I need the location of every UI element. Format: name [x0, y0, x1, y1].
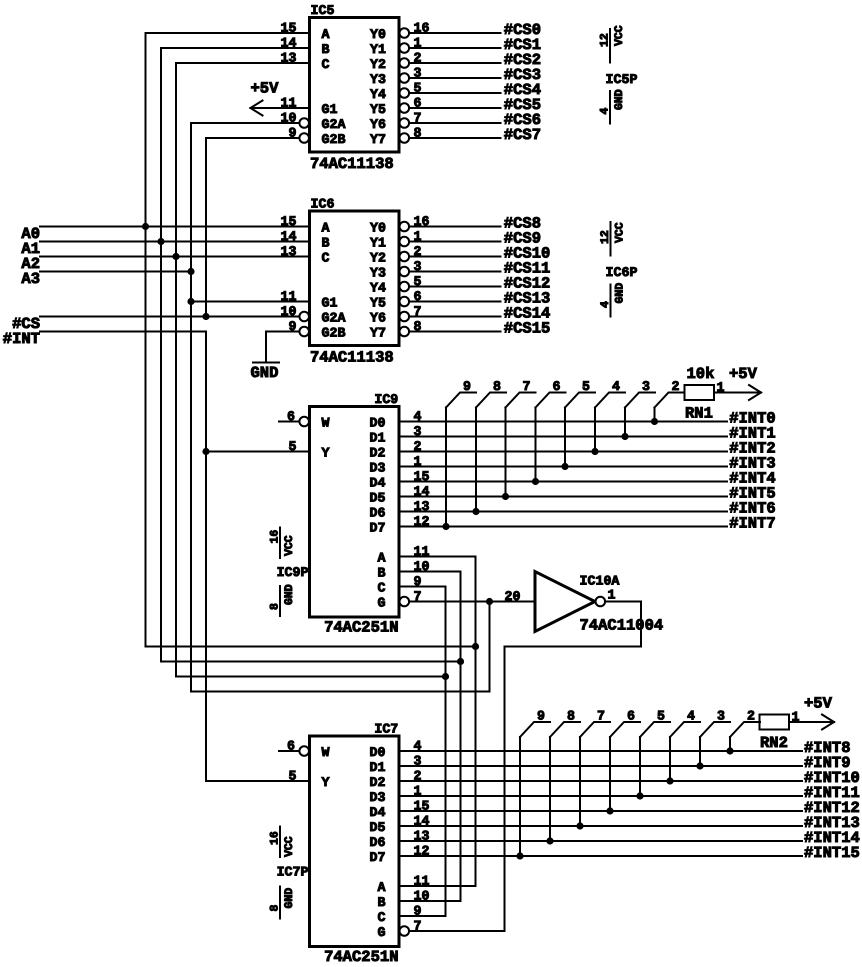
IC7 pin name D7 [370, 850, 386, 865]
IC6P VCC pin name [614, 222, 627, 243]
IC5 pin number 1 [414, 36, 422, 51]
svg-text:Y0: Y0 [370, 221, 386, 236]
IC9 G inversion bubble [400, 597, 410, 607]
IC9P VCC pin number 16 [269, 530, 282, 544]
svg-text:IC7: IC7 [374, 722, 398, 737]
net label A0 [21, 225, 40, 243]
RN1 pin 2 pull-up column [654, 408, 656, 422]
svg-text:D3: D3 [370, 790, 386, 805]
power symbol IC9P GND pin [279, 586, 281, 616]
RN1 pin number 9 [463, 379, 471, 394]
svg-text:W: W [322, 416, 330, 431]
wire net A3 horizontal from label [40, 271, 191, 273]
svg-text:7: 7 [597, 709, 605, 724]
svg-text:IC10A: IC10A [580, 574, 620, 589]
RN2 pin 8 pull-up column [549, 737, 551, 841]
wire #INT2 from IC9 D2 [399, 451, 727, 453]
wire #INT7 from IC9 D7 [399, 526, 727, 528]
RN2 pin 9 lead (diagonal+stub) [520, 722, 550, 737]
IC9 pin name C [378, 581, 386, 596]
svg-text:#CS7: #CS7 [504, 126, 541, 144]
RN2 pin number 4 [687, 709, 695, 724]
IC9P GND pin number 8 [269, 603, 282, 610]
IC7 pin name D0 [370, 745, 386, 760]
svg-text:IC7P: IC7P [277, 865, 309, 880]
IC5 reference label [311, 3, 335, 18]
IC9 pin number 2 [414, 439, 422, 454]
junction net #INT at IC9 Y [202, 448, 209, 455]
wire #CS10 from IC6 Y2 [409, 256, 500, 258]
IC5 Y2 inversion bubble [400, 58, 410, 68]
IC9 pin number 11 [414, 544, 430, 559]
net label #INT3 [729, 455, 776, 473]
IC6 pin number 3 [414, 259, 422, 274]
RN2 pin number 1 [792, 710, 800, 725]
IC6 Y7 inversion bubble [400, 327, 410, 337]
svg-text:C: C [322, 251, 330, 266]
RN1 pin 3 pull-up column [624, 408, 626, 437]
power symbol IC5P GND pin [609, 91, 611, 124]
net label #CS0 [504, 21, 541, 39]
svg-text:IC9P: IC9P [277, 565, 309, 580]
wire net #CS horizontal from label to IC6 pin G2A [40, 316, 299, 318]
RN2 pin number 5 [657, 709, 665, 724]
IC6P GND pin name [614, 283, 627, 304]
svg-text:D0: D0 [370, 745, 386, 760]
wire #INT10 from IC7 D2 [399, 780, 802, 782]
IC10A output inversion bubble [596, 597, 606, 607]
junction net #CS [202, 313, 209, 320]
svg-text:12: 12 [599, 230, 612, 244]
IC9 pin name D1 [370, 431, 386, 446]
IC6 pin number 15 [281, 214, 297, 229]
junction RN1 pin 4 on INT line [591, 448, 598, 455]
IC5 pin name Y1 [370, 42, 386, 57]
wire GND vertical drop [265, 332, 267, 363]
IC6 pin name Y0 [370, 221, 386, 236]
svg-text:6: 6 [287, 739, 295, 754]
svg-text:#CS15: #CS15 [504, 320, 551, 338]
svg-text:IC5: IC5 [311, 3, 335, 18]
net label #CS7 [504, 126, 541, 144]
RN2 pin number 6 [627, 709, 635, 724]
IC5P VCC pin name [613, 25, 626, 46]
svg-text:GND: GND [251, 364, 279, 382]
junction RN2 pin 3 on INT line [696, 762, 703, 769]
IC9 pin number 4 [414, 409, 422, 424]
IC7 pin number 7 [414, 919, 422, 934]
IC7 pin name D3 [370, 790, 386, 805]
wire #CS0 from IC5 Y0 [409, 32, 500, 34]
svg-text:D2: D2 [370, 446, 386, 461]
RN1 pin number 7 [523, 379, 531, 394]
svg-text:20: 20 [505, 589, 521, 604]
junction RN1 pin 8 on INT line [472, 508, 479, 515]
RN1 pin 7 lead (diagonal+stub) [506, 393, 536, 408]
svg-text:6: 6 [627, 709, 635, 724]
net label #INT4 [729, 470, 776, 488]
net label #CS1 [504, 36, 541, 54]
IC6 Y4 inversion bubble [400, 282, 410, 292]
IC9 pin name A [378, 551, 386, 566]
IC5 pin name G2B [322, 132, 346, 147]
net label #INT1 [729, 425, 776, 443]
IC5P GND pin number 4 [599, 108, 612, 115]
IC5 G2A inversion bubble [299, 118, 309, 128]
svg-text:IC6: IC6 [311, 197, 335, 212]
IC5 pin name Y3 [370, 72, 386, 87]
wire net #INT vertical bus [205, 332, 207, 782]
IC9P reference label [277, 565, 309, 580]
wire #INT14 from IC7 D6 [399, 840, 802, 842]
wire net A2 to IC5 pin C [176, 62, 310, 64]
RN1 pin 2 lead (diagonal+stub) [655, 393, 685, 408]
svg-text:Y3: Y3 [370, 72, 386, 87]
wire IC9 B to column [399, 571, 461, 573]
svg-text:Y2: Y2 [370, 57, 386, 72]
IC5 Y0 inversion bubble [400, 28, 410, 38]
junction RN1 pin 3 on INT line [621, 433, 628, 440]
wire net #INT to IC7 pin Y [206, 780, 310, 782]
wire #CS4 from IC5 Y4 [409, 92, 500, 94]
net label #CS3 [504, 66, 541, 84]
RN2 pin 5 pull-up column [639, 737, 641, 796]
svg-text:B: B [322, 42, 330, 57]
junction net A0 at select column [472, 643, 479, 650]
IC6 Y3 inversion bubble [400, 267, 410, 277]
svg-text:D3: D3 [370, 461, 386, 476]
IC5 pin name G1 [322, 102, 338, 117]
IC5 pin number 11 [281, 96, 297, 111]
IC6 pin number 2 [414, 244, 422, 259]
IC7 pin name Y [322, 775, 330, 790]
svg-text:4: 4 [599, 301, 612, 308]
RN2 pin 8 lead (diagonal+stub) [550, 722, 580, 737]
IC9 pin number 3 [414, 424, 422, 439]
wire #INT13 from IC7 D5 [399, 825, 802, 827]
IC6 pin number 10 [281, 304, 297, 319]
RN1 pin 9 pull-up column [445, 408, 447, 527]
svg-text:GND: GND [283, 888, 296, 909]
IC5 Y5 inversion bubble [400, 103, 410, 113]
IC6 Y0 inversion bubble [400, 222, 410, 232]
wire net A0 bottom row to IC9/IC7 A [146, 646, 476, 648]
IC9 pin number 13 [414, 499, 430, 514]
IC6 pin name Y7 [370, 326, 386, 341]
RN2 pin 2 lead (diagonal+stub) [730, 722, 760, 737]
decoder IC6 74AC11138 body [310, 211, 400, 346]
svg-text:4: 4 [612, 379, 620, 394]
IC5 Y4 inversion bubble [400, 88, 410, 98]
RN1 pin number 1 [717, 380, 725, 395]
IC7 pin number 5 [289, 769, 297, 784]
wire GND from IC6 G2B [266, 331, 299, 333]
svg-text:VCC: VCC [613, 25, 626, 46]
wire #CS7 from IC5 Y7 [409, 137, 500, 139]
net label #CS6 [504, 111, 541, 129]
wire #INT6 from IC9 D6 [399, 511, 727, 513]
svg-text:1: 1 [608, 588, 616, 603]
power symbol IC7P GND pin [279, 887, 281, 919]
wire IC7 A from column [399, 885, 476, 887]
svg-text:74AC251N: 74AC251N [324, 948, 398, 966]
IC5 pin name Y0 [370, 27, 386, 42]
junction RN2 pin 4 on INT line [666, 777, 673, 784]
wire net A1 vertical bus [160, 48, 162, 662]
junction RN2 pin 6 on INT line [606, 807, 613, 814]
svg-text:Y: Y [322, 775, 330, 790]
IC7 W inversion bubble [299, 746, 309, 756]
wire #INT0 from IC9 D0 [399, 421, 727, 423]
wire +5V to IC5 pin G1 [251, 107, 310, 109]
svg-text:B: B [322, 236, 330, 251]
IC7 pin number 1 [414, 784, 422, 799]
net label #INT10 [804, 769, 860, 787]
svg-text:2: 2 [672, 379, 680, 394]
IC5P GND pin name [613, 89, 626, 110]
IC6P GND pin number 4 [599, 301, 612, 308]
wire IC10A output to IC7 G (right, down, left, down) [409, 602, 641, 932]
wire net A1 bottom row to IC9/IC7 B [161, 661, 461, 663]
IC9 pin name G [378, 596, 386, 611]
junction RN1 pin 6 on INT line [532, 478, 539, 485]
IC9P GND pin name [283, 584, 296, 605]
IC10A value label 74AC11004 [580, 617, 664, 635]
wire RN1 common to +5V [714, 392, 761, 394]
net label #INT0 [729, 410, 776, 428]
IC6 pin number 7 [414, 304, 422, 319]
IC5 pin name Y4 [370, 87, 386, 102]
IC9 pin number 5 [289, 439, 297, 454]
IC7 pin name W [322, 745, 330, 760]
IC9 pin name D6 [370, 506, 386, 521]
svg-text:G: G [378, 596, 386, 611]
supply symbol +5V arrow (IC5 G1) [251, 101, 263, 116]
IC5 pin number 10 [281, 111, 297, 126]
junction RN1 pin 5 on INT line [561, 463, 568, 470]
svg-text:VCC: VCC [614, 222, 627, 243]
wire IC9 G to IC10A input [409, 601, 535, 603]
IC10A input pin number 20 [505, 589, 521, 604]
net label #INT7 [729, 515, 776, 533]
svg-text:G2B: G2B [322, 132, 346, 147]
IC7P VCC pin number 16 [269, 831, 282, 845]
IC7P GND pin name [283, 888, 296, 909]
wire #CS14 from IC6 Y6 [409, 316, 500, 318]
IC7 pin number 4 [414, 739, 422, 754]
multiplexer IC7 74AC251N body [310, 736, 400, 947]
IC7P VCC pin name [283, 836, 296, 857]
IC9 value label 74AC251N [324, 619, 398, 637]
IC7 pin name D6 [370, 835, 386, 850]
svg-text:C: C [322, 57, 330, 72]
power symbol IC7P VCC pin [279, 827, 281, 858]
IC9 pin name D7 [370, 521, 386, 536]
svg-text:IC9: IC9 [374, 392, 398, 407]
IC7 pin number 10 [414, 889, 430, 904]
svg-text:8: 8 [269, 905, 282, 912]
svg-text:Y0: Y0 [370, 27, 386, 42]
RN1 pin 8 lead (diagonal+stub) [476, 393, 506, 408]
net label #INT11 [804, 784, 860, 802]
svg-text:8: 8 [493, 379, 501, 394]
wire net A3 bottom row [191, 691, 490, 693]
IC7 pin name D4 [370, 805, 386, 820]
RN2 pin 4 pull-up column [669, 737, 671, 781]
wire #CS15 from IC6 Y7 [409, 331, 500, 333]
IC7 pin name A [378, 880, 386, 895]
wire net A3 riser to IC9 G [489, 602, 491, 692]
wire #INT11 from IC7 D3 [399, 795, 802, 797]
RN1 pin number 4 [612, 379, 620, 394]
svg-text:4: 4 [599, 108, 612, 115]
IC6 pin name Y1 [370, 236, 386, 251]
IC6 pin name Y2 [370, 251, 386, 266]
IC9 pin number 1 [414, 454, 422, 469]
IC6 G2A inversion bubble [299, 312, 309, 322]
svg-text:8: 8 [567, 709, 575, 724]
supply label +5V (RN1) [729, 365, 758, 383]
junction RN1 pin 9 on INT line [442, 523, 449, 530]
net label #CS13 [504, 290, 551, 308]
svg-text:+5V: +5V [729, 365, 758, 383]
IC6 pin number 16 [414, 214, 430, 229]
IC6 Y1 inversion bubble [400, 237, 410, 247]
RN1 value label 10k [687, 365, 715, 383]
IC5 pin number 6 [414, 96, 422, 111]
RN2 pin 3 lead (diagonal+stub) [700, 722, 730, 737]
IC7 pin number 11 [414, 874, 430, 889]
svg-text:74AC11004: 74AC11004 [580, 617, 664, 635]
wire RN2 common to +5V [789, 721, 834, 723]
IC9 pin name B [378, 566, 386, 581]
junction net A3 at IC9 G wire [486, 598, 493, 605]
RN1 pin 7 pull-up column [505, 408, 507, 497]
wire net #CS to IC5 pin G2B [206, 137, 299, 139]
IC9 pin name D0 [370, 416, 386, 431]
junction net A2 [172, 253, 179, 260]
junction net A3 at IC6 G1 [187, 298, 194, 305]
RN1 pin number 6 [553, 379, 561, 394]
wire #INT15 from IC7 D7 [399, 855, 802, 857]
IC6 pin name G1 [322, 296, 338, 311]
IC7 pin number 14 [414, 814, 430, 829]
svg-text:#INT: #INT [3, 330, 40, 348]
svg-text:D7: D7 [370, 521, 386, 536]
svg-text:Y4: Y4 [370, 281, 386, 296]
IC7 pin name C [378, 910, 386, 925]
IC5 pin number 14 [281, 36, 297, 51]
wire net A2 bottom row to IC9/IC7 C [176, 676, 446, 678]
svg-text:G2B: G2B [322, 326, 346, 341]
wire net A0 to IC5 pin A [146, 32, 310, 34]
svg-text:Y7: Y7 [370, 326, 386, 341]
svg-text:D2: D2 [370, 775, 386, 790]
net label #INT6 [729, 500, 776, 518]
svg-text:A: A [378, 880, 386, 895]
net label #INT9 [804, 754, 851, 772]
IC7 pin number 2 [414, 769, 422, 784]
RN1 pin 9 lead (diagonal+stub) [446, 393, 476, 408]
IC6 pin name A [322, 221, 330, 236]
RN1 pin 5 pull-up column [564, 408, 566, 467]
net label #CS14 [504, 305, 551, 323]
net label #INT8 [804, 739, 851, 757]
ground label GND [251, 364, 279, 382]
IC6P reference label [606, 265, 638, 280]
IC6 pin number 14 [281, 229, 297, 244]
svg-text:C: C [378, 910, 386, 925]
svg-text:9: 9 [537, 709, 545, 724]
wire select column B (IC9 B to IC7 B) [460, 572, 462, 902]
IC6 pin name B [322, 236, 330, 251]
RN2 pin 7 pull-up column [579, 737, 581, 826]
IC6 Y6 inversion bubble [400, 312, 410, 322]
IC9 pin number 6 [287, 409, 295, 424]
wire #CS8 from IC6 Y0 [409, 226, 500, 228]
RN2 pin 7 lead (diagonal+stub) [580, 722, 610, 737]
IC6 value label 74AC11138 [310, 349, 394, 367]
wire IC9 A to column [399, 556, 476, 558]
svg-text:W: W [322, 745, 330, 760]
RN1 pin 8 pull-up column [475, 408, 477, 512]
junction RN2 pin 9 on INT line [516, 852, 523, 859]
svg-text:Y5: Y5 [370, 102, 386, 117]
net label #INT12 [804, 799, 860, 817]
supply label +5V (RN2) [804, 695, 833, 713]
junction RN2 pin 8 on INT line [546, 837, 553, 844]
IC9 pin name D2 [370, 446, 386, 461]
IC6 pin number 11 [281, 289, 297, 304]
svg-text:D1: D1 [370, 760, 386, 775]
supply symbol +5V arrow (RN2) [822, 715, 834, 730]
supply label +5V [251, 80, 280, 98]
wire net A3 to IC5 pin G2A [191, 122, 299, 124]
IC9 pin name Y [322, 446, 330, 461]
svg-text:Y3: Y3 [370, 266, 386, 281]
IC5 pin number 15 [281, 21, 297, 36]
IC6 pin name C [322, 251, 330, 266]
svg-text:5: 5 [657, 709, 665, 724]
supply symbol +5V arrow (RN1) [749, 385, 761, 400]
svg-text:RN2: RN2 [760, 734, 788, 752]
IC5 pin name A [322, 27, 330, 42]
RN2 pin 4 lead (diagonal+stub) [670, 722, 700, 737]
wire #CS3 from IC5 Y3 [409, 77, 500, 79]
IC7 reference label [374, 722, 398, 737]
RN2 pin number 3 [717, 709, 725, 724]
IC7P GND pin number 8 [269, 905, 282, 912]
wire net #INT horizontal from label [40, 331, 206, 333]
svg-text:9: 9 [463, 379, 471, 394]
IC9 W output stub wire (unconnected) [279, 421, 298, 423]
inverter IC10A triangle [535, 572, 595, 632]
junction net A1 [157, 238, 164, 245]
ground symbol bar [253, 362, 279, 364]
power symbol IC6P VCC pin [610, 222, 612, 256]
RN2 pin 2 pull-up column [729, 737, 731, 751]
svg-text:G2A: G2A [322, 311, 346, 326]
IC6 pin name Y5 [370, 296, 386, 311]
svg-text:A3: A3 [21, 270, 40, 288]
junction RN2 pin 7 on INT line [576, 822, 583, 829]
IC5 pin name Y7 [370, 132, 386, 147]
svg-text:Y5: Y5 [370, 296, 386, 311]
IC7 pin name G [378, 925, 386, 940]
IC7 pin number 12 [414, 844, 430, 859]
IC5P reference label [606, 72, 638, 87]
svg-text:Y6: Y6 [370, 311, 386, 326]
